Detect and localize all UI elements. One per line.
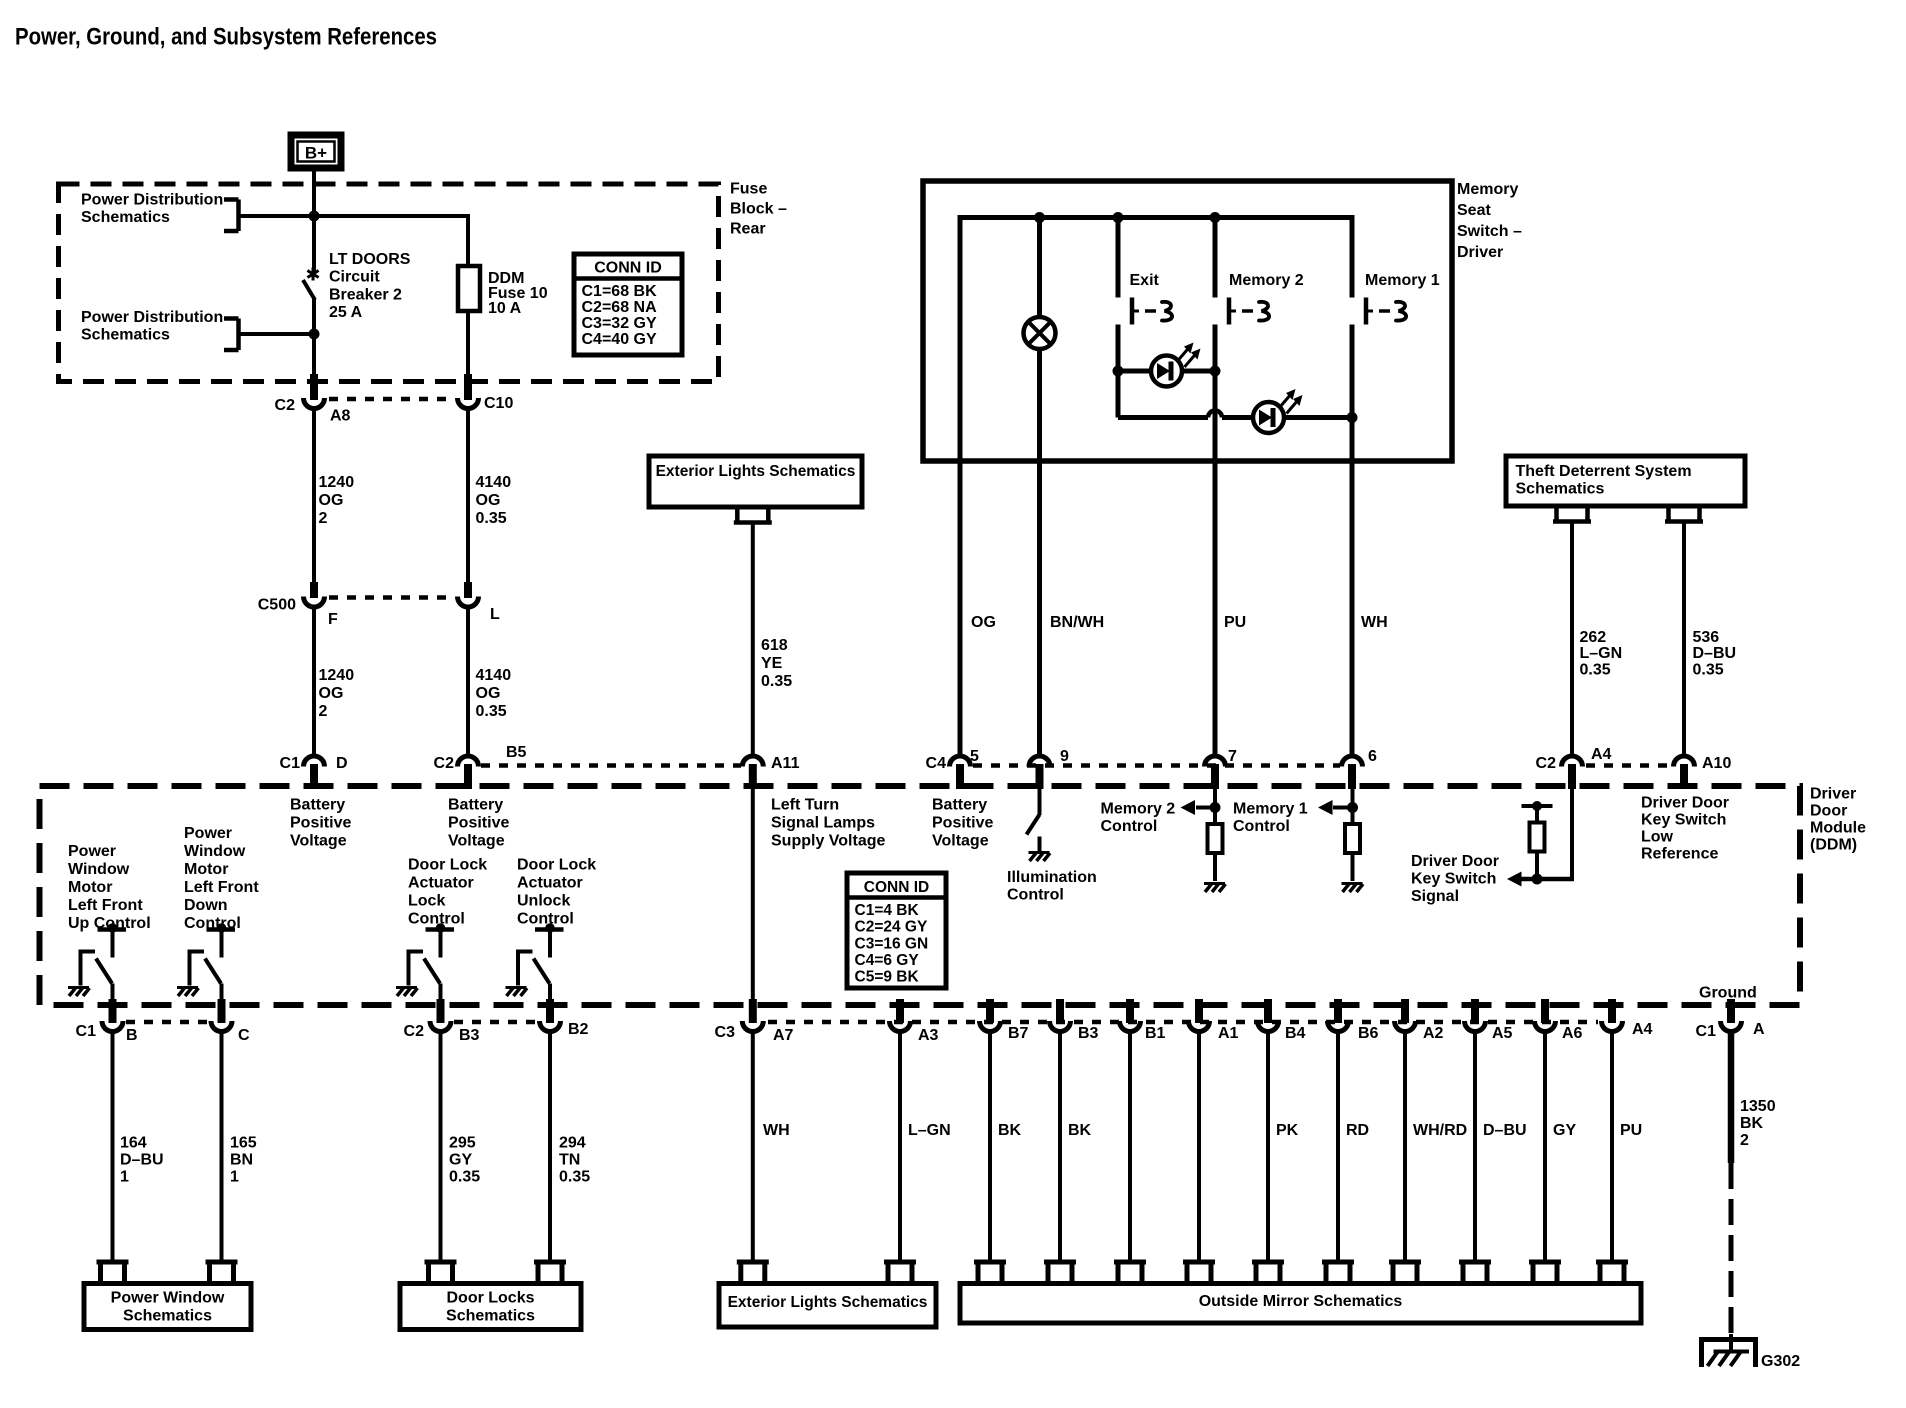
svg-text:Key Switch: Key Switch — [1641, 811, 1726, 828]
wire A7 to exterior lights schematics — [751, 1032, 755, 1262]
illumination control switch — [1038, 789, 1042, 815]
wire junction to circuit breaker — [312, 216, 316, 272]
connector A2 — [1401, 999, 1409, 1023]
power window schematics box — [84, 1284, 251, 1330]
svg-text:Actuator: Actuator — [517, 874, 583, 891]
svg-text:Power: Power — [184, 825, 232, 842]
ground wire 1350 BK 2 — [1728, 1032, 1735, 1163]
wire exterior lights to A11 — [751, 523, 755, 756]
connector 7 — [1205, 756, 1226, 767]
svg-text:Block –: Block – — [730, 200, 787, 217]
svg-text:Unlock: Unlock — [517, 892, 570, 909]
svg-text:C4=6 GY: C4=6 GY — [855, 952, 920, 969]
svg-text:OG: OG — [971, 614, 996, 631]
svg-text:Window: Window — [184, 843, 246, 860]
off-page bracket upper — [224, 197, 239, 202]
svg-text:164: 164 — [120, 1134, 147, 1151]
junction dot LED2 right — [1347, 412, 1358, 423]
svg-text:262: 262 — [1580, 629, 1607, 646]
svg-text:1350: 1350 — [1740, 1098, 1776, 1115]
svg-text:Door: Door — [1810, 802, 1847, 819]
svg-text:PU: PU — [1224, 614, 1246, 631]
LED indicator 1 — [1151, 356, 1182, 387]
wire lower power distribution to junction — [239, 332, 315, 336]
svg-text:Theft Deterrent System: Theft Deterrent System — [1516, 463, 1692, 480]
svg-text:165: 165 — [230, 1134, 257, 1151]
svg-text:B: B — [126, 1027, 138, 1044]
svg-text:Driver Door: Driver Door — [1641, 794, 1729, 811]
svg-text:D–BU: D–BU — [120, 1151, 164, 1168]
svg-text:Fuse: Fuse — [730, 180, 767, 197]
svg-text:5: 5 — [970, 748, 979, 765]
wire memory1 branch upper — [1350, 215, 1355, 298]
bracket outside mirror x1268 — [1252, 1260, 1284, 1265]
connector C1-B — [109, 999, 117, 1023]
bracket outside mirror x1199 — [1183, 1260, 1215, 1265]
wire mirror pin x1405 — [1403, 1032, 1407, 1262]
svg-text:Outside Mirror Schematics: Outside Mirror Schematics — [1199, 1293, 1403, 1310]
junction dot exit branch — [1113, 212, 1124, 223]
svg-text:Power Distribution: Power Distribution — [81, 309, 223, 326]
connector C2 pin A8 — [310, 374, 318, 400]
svg-text:A: A — [1753, 1021, 1765, 1038]
connector B4 — [1264, 999, 1272, 1023]
wire fuse to connector C10 — [466, 311, 470, 378]
svg-text:PK: PK — [1276, 1122, 1299, 1139]
svg-text:CONN ID: CONN ID — [864, 879, 929, 896]
outside mirror schematics box — [960, 1284, 1641, 1324]
svg-text:GY: GY — [449, 1151, 472, 1168]
theft deterrent system schematics box — [1506, 456, 1745, 506]
svg-text:C: C — [238, 1027, 250, 1044]
wire memory1 branch WH — [1350, 325, 1355, 756]
svg-text:A1: A1 — [1218, 1025, 1239, 1042]
svg-text:Schematics: Schematics — [81, 209, 170, 226]
wire mirror pin x1475 — [1473, 1032, 1477, 1262]
switch Exit — [1130, 298, 1135, 325]
connector B1 — [1126, 999, 1134, 1023]
svg-text:Reference: Reference — [1641, 845, 1718, 862]
svg-text:Voltage: Voltage — [932, 832, 989, 849]
connector A6 — [1541, 999, 1549, 1023]
svg-text:C3: C3 — [715, 1024, 736, 1041]
svg-text:Memory 1: Memory 1 — [1233, 800, 1308, 817]
svg-text:2: 2 — [319, 703, 328, 720]
svg-text:C2: C2 — [1536, 755, 1557, 772]
svg-text:Battery: Battery — [290, 796, 345, 813]
svg-text:B4: B4 — [1285, 1025, 1306, 1042]
wire mirror pin x1268 — [1266, 1032, 1270, 1262]
connector dashed link row2 — [329, 595, 453, 600]
svg-text:Door Lock: Door Lock — [408, 856, 487, 873]
connector C1-D — [304, 756, 325, 767]
bracket outside mirror x1338 — [1322, 1260, 1354, 1265]
connector dashed link row1 — [329, 397, 453, 402]
svg-text:Illumination: Illumination — [1007, 869, 1097, 886]
wire mirror pin x1199 — [1197, 1032, 1201, 1262]
bracket outside mirror x1130 — [1114, 1260, 1146, 1265]
svg-text:L: L — [490, 606, 500, 623]
wire bus to DDM fuse — [466, 214, 470, 268]
svg-text:7: 7 — [1228, 748, 1237, 765]
bracket exterior lights 1 — [737, 1260, 769, 1265]
svg-text:WH: WH — [1361, 614, 1388, 631]
memory seat switch box — [923, 181, 1452, 461]
svg-text:2: 2 — [1740, 1132, 1749, 1149]
svg-text:Memory: Memory — [1457, 181, 1518, 198]
junction dot LED1 left — [1113, 366, 1124, 377]
door locks schematics box — [400, 1284, 581, 1330]
svg-text:A4: A4 — [1632, 1021, 1653, 1038]
svg-text:A11: A11 — [771, 755, 800, 772]
wire memory2 branch upper — [1213, 218, 1218, 298]
svg-text:WH/RD: WH/RD — [1413, 1122, 1467, 1139]
bracket power window 1 — [97, 1260, 129, 1265]
svg-text:A6: A6 — [1562, 1025, 1583, 1042]
svg-text:C1: C1 — [1696, 1023, 1717, 1040]
wire theft to C2-A4 — [1570, 522, 1574, 756]
svg-text:C2=24 GY: C2=24 GY — [855, 919, 928, 936]
exterior lights schematics reference box (top) — [649, 456, 862, 507]
wire lamp branch BN/WH — [1037, 218, 1042, 756]
svg-text:C2=68 NA: C2=68 NA — [582, 299, 658, 316]
illumination lamp — [1024, 317, 1056, 349]
wire C10 to C500-L — [466, 409, 470, 586]
wire A11 through DDM — [751, 789, 755, 1001]
bracket below theft box 2 — [1666, 506, 1671, 520]
svg-text:B3: B3 — [1078, 1025, 1099, 1042]
connector C10 — [464, 374, 472, 400]
circuit breaker LT DOORS Breaker 2 25A — [312, 268, 315, 281]
memory 2 control network — [1213, 789, 1217, 825]
svg-text:BK: BK — [998, 1122, 1022, 1139]
svg-text:Control: Control — [517, 910, 574, 927]
svg-text:2: 2 — [319, 510, 328, 527]
svg-text:Positive: Positive — [932, 814, 993, 831]
svg-text:A2: A2 — [1423, 1025, 1444, 1042]
B+ battery feed symbol — [291, 135, 341, 168]
svg-text:BN: BN — [230, 1151, 253, 1168]
svg-text:Module: Module — [1810, 819, 1866, 836]
svg-text:1240: 1240 — [319, 474, 355, 491]
svg-text:0.35: 0.35 — [476, 510, 507, 527]
connector dashed link row4 — [126, 1020, 208, 1025]
wire theft to A10 — [1682, 522, 1686, 756]
svg-text:OG: OG — [476, 492, 501, 509]
svg-text:B2: B2 — [568, 1021, 589, 1038]
svg-text:Breaker 2: Breaker 2 — [329, 286, 402, 303]
svg-text:Door Lock: Door Lock — [517, 856, 596, 873]
svg-text:10 A: 10 A — [488, 300, 522, 317]
off-page bracket lower — [224, 316, 239, 321]
svg-text:C1: C1 — [280, 755, 301, 772]
svg-text:Schematics: Schematics — [81, 326, 170, 343]
svg-text:YE: YE — [761, 655, 783, 672]
connector C500 pin L — [464, 582, 472, 598]
junction dot B+ bus — [309, 211, 320, 222]
svg-text:Ground: Ground — [1699, 985, 1757, 1002]
wire B+ down into fuse block — [312, 168, 316, 218]
svg-text:C4: C4 — [926, 755, 947, 772]
svg-text:A8: A8 — [330, 408, 351, 425]
svg-text:Control: Control — [1007, 886, 1064, 903]
svg-text:WH: WH — [763, 1122, 790, 1139]
svg-text:Supply Voltage: Supply Voltage — [771, 832, 885, 849]
wire exit branch upper — [1116, 218, 1121, 298]
fuse block - rear dashed box — [59, 184, 719, 382]
wire A8 to C500-F — [312, 409, 316, 586]
svg-text:B6: B6 — [1358, 1025, 1379, 1042]
svg-text:Driver: Driver — [1810, 785, 1856, 802]
svg-text:A10: A10 — [1702, 755, 1731, 772]
svg-text:F: F — [328, 611, 338, 628]
driver door key switch signal network — [1570, 789, 1574, 879]
connector C3-A7 — [749, 999, 757, 1023]
connector A3 — [896, 999, 904, 1023]
svg-text:C500: C500 — [258, 597, 296, 614]
svg-text:C3=32 GY: C3=32 GY — [582, 315, 657, 332]
svg-text:9: 9 — [1060, 748, 1069, 765]
bracket outside mirror x1612 — [1596, 1260, 1628, 1265]
svg-text:A4: A4 — [1591, 746, 1612, 763]
svg-text:GY: GY — [1553, 1122, 1576, 1139]
svg-text:536: 536 — [1693, 629, 1720, 646]
svg-text:C2: C2 — [404, 1023, 425, 1040]
svg-text:25 A: 25 A — [329, 304, 363, 321]
svg-text:C2: C2 — [434, 755, 455, 772]
svg-text:Motor: Motor — [184, 861, 228, 878]
connector B7 — [986, 999, 994, 1023]
connector A1 — [1195, 999, 1203, 1023]
svg-text:Schematics: Schematics — [446, 1307, 535, 1324]
svg-text:Voltage: Voltage — [448, 832, 505, 849]
svg-text:L–GN: L–GN — [1580, 645, 1623, 662]
wire B2 to door locks schematics — [548, 1032, 552, 1262]
connector C — [218, 999, 226, 1023]
svg-text:4140: 4140 — [476, 667, 512, 684]
svg-text:Left Front: Left Front — [184, 879, 259, 896]
connector C4-5 — [950, 756, 971, 767]
wire mirror pin x1338 — [1336, 1032, 1340, 1262]
CONN ID table (fuse block rear) — [574, 254, 682, 355]
wire B3 to door locks schematics — [439, 1032, 443, 1262]
connector B2 — [546, 999, 554, 1023]
CONN ID table (DDM) — [847, 873, 946, 988]
bracket outside mirror x990 — [974, 1260, 1006, 1265]
junction dot LED1 right — [1210, 366, 1221, 377]
svg-text:OG: OG — [319, 492, 344, 509]
svg-text:D–BU: D–BU — [1483, 1122, 1527, 1139]
power window down switch — [207, 927, 236, 932]
svg-text:PU: PU — [1620, 1122, 1642, 1139]
svg-text:A3: A3 — [918, 1027, 939, 1044]
svg-text:Driver Door: Driver Door — [1411, 853, 1499, 870]
connector A4 — [1608, 999, 1616, 1023]
svg-text:C1=68 BK: C1=68 BK — [582, 283, 658, 300]
bracket outside mirror x1405 — [1389, 1260, 1421, 1265]
svg-text:Power Distribution: Power Distribution — [81, 191, 223, 208]
connector C1-A — [1727, 999, 1735, 1023]
bracket outside mirror x1545 — [1529, 1260, 1561, 1265]
svg-text:Signal: Signal — [1411, 888, 1459, 905]
connector C2-B5 — [458, 756, 479, 767]
LED indicator 2 — [1253, 402, 1284, 433]
connector A10 — [1674, 756, 1695, 767]
svg-text:Control: Control — [408, 910, 465, 927]
svg-text:C3=16 GN: C3=16 GN — [855, 935, 929, 952]
svg-text:0.35: 0.35 — [761, 673, 792, 690]
fuse DDM Fuse 10 10A — [458, 266, 480, 311]
svg-text:L–GN: L–GN — [908, 1122, 951, 1139]
connector B3 — [1056, 999, 1064, 1023]
svg-text:Actuator: Actuator — [408, 874, 474, 891]
bracket below theft box 1 — [1554, 506, 1559, 520]
svg-text:Battery: Battery — [932, 796, 987, 813]
svg-text:Key Switch: Key Switch — [1411, 870, 1496, 887]
svg-text:Control: Control — [1101, 818, 1158, 835]
svg-text:Low: Low — [1641, 828, 1674, 845]
bracket outside mirror x1060 — [1044, 1260, 1076, 1265]
svg-text:Seat: Seat — [1457, 202, 1491, 219]
connector dashed link row3 — [481, 763, 741, 768]
svg-text:0.35: 0.35 — [476, 703, 507, 720]
junction dot lamp branch — [1034, 212, 1045, 223]
svg-text:618: 618 — [761, 637, 788, 654]
door lock switch — [426, 927, 455, 932]
connector 6 — [1342, 756, 1363, 766]
bracket door locks 1 — [425, 1260, 457, 1265]
wire LED2 row with hop — [1118, 415, 1208, 420]
svg-text:Window: Window — [68, 861, 130, 878]
svg-text:Left Turn: Left Turn — [771, 796, 839, 813]
svg-text:4140: 4140 — [476, 474, 512, 491]
svg-text:G302: G302 — [1761, 1353, 1800, 1370]
svg-text:TN: TN — [559, 1151, 580, 1168]
svg-text:0.35: 0.35 — [559, 1168, 590, 1185]
wire F to C1-D — [312, 608, 316, 755]
svg-text:A7: A7 — [773, 1027, 794, 1044]
svg-text:B1: B1 — [1145, 1025, 1166, 1042]
connector C2-B3 — [437, 999, 445, 1023]
svg-text:D: D — [336, 755, 348, 772]
svg-text:RD: RD — [1346, 1122, 1369, 1139]
connector 9 — [1029, 756, 1050, 767]
wire power distribution to DDM fuse branch — [239, 214, 471, 218]
wire mirror pin x990 — [988, 1032, 992, 1262]
wire A3 to exterior lights schematics — [898, 1032, 902, 1262]
svg-text:C1=4 BK: C1=4 BK — [855, 902, 920, 919]
svg-text:Left Front: Left Front — [68, 897, 143, 914]
svg-text:1: 1 — [230, 1168, 239, 1185]
svg-text:Power Window: Power Window — [111, 1289, 225, 1306]
exterior lights schematics box (bottom) — [719, 1284, 936, 1328]
wire B to power window schematics — [111, 1032, 115, 1262]
svg-text:Switch –: Switch – — [1457, 223, 1522, 240]
wire C to power window schematics — [220, 1032, 224, 1262]
svg-text:Driver: Driver — [1457, 244, 1503, 261]
wire mirror pin x1060 — [1058, 1032, 1062, 1262]
svg-text:0.35: 0.35 — [449, 1168, 480, 1185]
svg-text:C2: C2 — [275, 397, 296, 414]
svg-text:Down: Down — [184, 897, 228, 914]
wire exit branch lower — [1116, 325, 1121, 418]
svg-text:B3: B3 — [459, 1027, 480, 1044]
power window up switch — [98, 927, 127, 932]
svg-text:Memory 2: Memory 2 — [1229, 272, 1304, 289]
connector A5 — [1471, 999, 1479, 1023]
connector A11 — [742, 756, 763, 767]
svg-text:Positive: Positive — [448, 814, 509, 831]
svg-text:Control: Control — [1233, 818, 1290, 835]
svg-text:295: 295 — [449, 1134, 476, 1151]
svg-text:B+: B+ — [305, 144, 327, 163]
svg-text:Door Locks: Door Locks — [446, 1289, 534, 1306]
svg-text:Exit: Exit — [1130, 272, 1160, 289]
svg-text:(DDM): (DDM) — [1810, 836, 1857, 853]
svg-text:Positive: Positive — [290, 814, 351, 831]
connector C2-A4 — [1562, 756, 1583, 767]
svg-text:LT DOORS: LT DOORS — [329, 251, 411, 268]
svg-text:Memory 1: Memory 1 — [1365, 272, 1440, 289]
bracket exterior lights 2 — [884, 1260, 916, 1265]
svg-text:6: 6 — [1368, 748, 1377, 765]
wire L to C2-B5 — [466, 608, 470, 755]
svg-text:Schematics: Schematics — [1516, 480, 1605, 497]
svg-text:C10: C10 — [484, 395, 513, 412]
driver door module dashed box — [40, 786, 1801, 1005]
bracket power window 2 — [206, 1260, 238, 1265]
svg-text:Exterior Lights Schematics: Exterior Lights Schematics — [656, 463, 856, 480]
wire mirror pin x1130 — [1128, 1032, 1132, 1262]
wire OG branch — [958, 215, 963, 755]
svg-text:Memory 2: Memory 2 — [1101, 800, 1176, 817]
svg-text:BK: BK — [1068, 1122, 1092, 1139]
bracket door locks 2 — [534, 1260, 566, 1265]
svg-text:Power: Power — [68, 843, 116, 860]
svg-text:BN/WH: BN/WH — [1050, 614, 1104, 631]
connector B6 — [1334, 999, 1342, 1023]
svg-text:C5=9 BK: C5=9 BK — [855, 969, 920, 986]
svg-text:294: 294 — [559, 1134, 586, 1151]
svg-text:Motor: Motor — [68, 879, 112, 896]
svg-text:Schematics: Schematics — [123, 1307, 212, 1324]
junction dot lower — [309, 329, 320, 340]
switch Memory 2 — [1227, 298, 1232, 325]
wire mirror pin x1612 — [1610, 1032, 1614, 1262]
svg-text:C4=40 GY: C4=40 GY — [582, 331, 657, 348]
svg-text:1: 1 — [120, 1168, 129, 1185]
svg-text:CONN ID: CONN ID — [594, 260, 662, 277]
wire LED1 row — [1118, 369, 1215, 374]
bracket below exterior lights box — [735, 507, 740, 521]
svg-text:Circuit: Circuit — [329, 269, 380, 286]
door unlock switch — [535, 927, 564, 932]
svg-text:0.35: 0.35 — [1580, 661, 1611, 678]
svg-text:A5: A5 — [1492, 1025, 1513, 1042]
svg-text:BK: BK — [1740, 1115, 1764, 1132]
svg-text:OG: OG — [319, 685, 344, 702]
svg-text:Signal Lamps: Signal Lamps — [771, 814, 875, 831]
svg-text:OG: OG — [476, 685, 501, 702]
wire breaker to connector C2-A8 — [312, 299, 316, 378]
svg-text:B7: B7 — [1008, 1025, 1029, 1042]
svg-text:B5: B5 — [506, 744, 527, 761]
svg-text:Battery: Battery — [448, 796, 503, 813]
switch Memory 1 — [1364, 298, 1369, 325]
memory switch top rail — [960, 215, 1352, 220]
svg-text:C1: C1 — [76, 1023, 97, 1040]
wire memory2 branch PU — [1213, 325, 1218, 756]
